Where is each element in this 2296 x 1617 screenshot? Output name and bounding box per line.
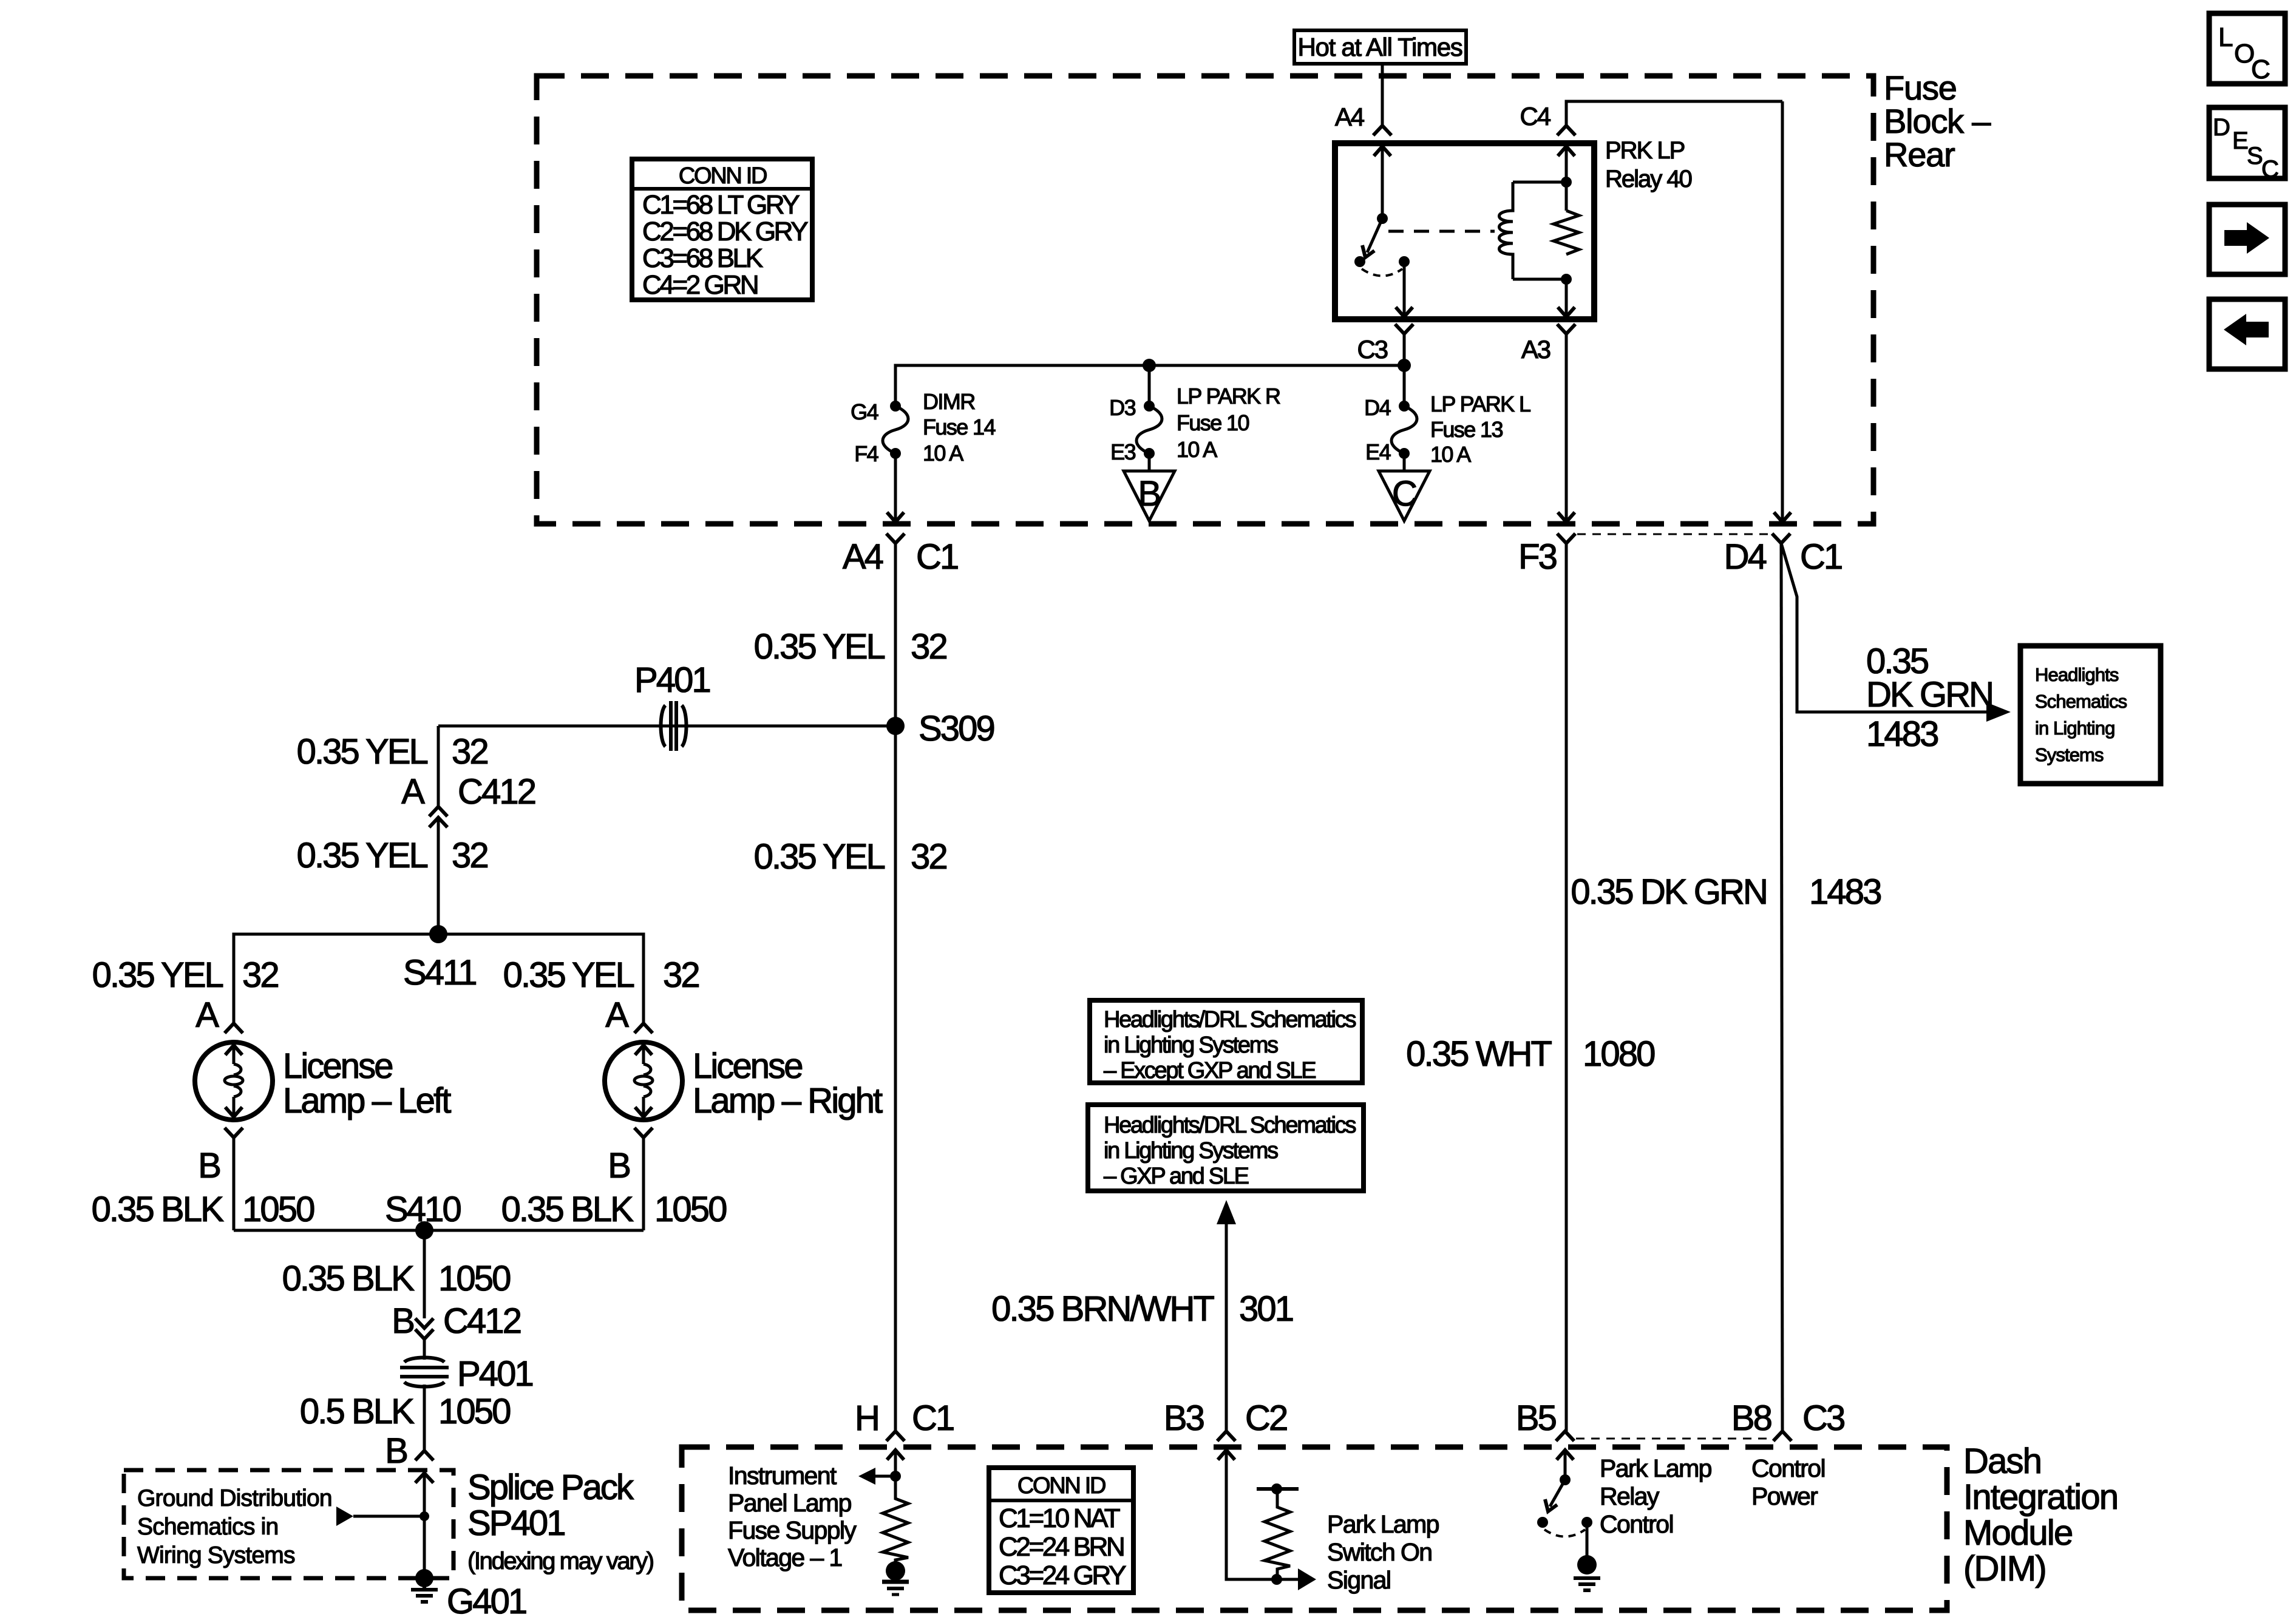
relay coil top wire <box>1513 181 1566 184</box>
svg-text:CONN ID: CONN ID <box>679 163 767 189</box>
svg-text:License: License <box>693 1046 802 1086</box>
pin label B5 <box>1516 1398 1556 1438</box>
box Headlights/DRL Schematics GXP <box>1088 1105 1364 1191</box>
park lamp switch resistor top tick <box>1257 1483 1299 1494</box>
pin label C4 (relay) <box>1520 102 1551 131</box>
label Instrument Panel Lamp Fuse Supply Voltage - 1 <box>728 1462 857 1571</box>
svg-text:0.35 YEL: 0.35 YEL <box>754 627 885 666</box>
svg-text:Fuse 14: Fuse 14 <box>923 415 995 439</box>
wire D4/C1 down to DIM pin B8 <box>1781 543 1782 1431</box>
arrow B5 into DIM <box>1557 1450 1574 1460</box>
svg-text:1050: 1050 <box>654 1190 726 1229</box>
svg-text:– GXP and SLE: – GXP and SLE <box>1104 1164 1249 1189</box>
license lamp right pin A fork <box>634 1023 653 1033</box>
svg-text:Switch On: Switch On <box>1327 1538 1432 1566</box>
lamp License Lamp - Left <box>195 1042 273 1120</box>
svg-text:CONN ID: CONN ID <box>1017 1473 1106 1499</box>
ground at park lamp relay control <box>1574 1555 1600 1590</box>
svg-text:LP PARK R: LP PARK R <box>1177 384 1280 408</box>
fuse LP PARK R labels <box>1109 384 1280 464</box>
relay coil <box>1500 182 1513 279</box>
svg-text:C1: C1 <box>912 1398 954 1438</box>
svg-text:Relay 40: Relay 40 <box>1605 166 1692 192</box>
branch arrow to ground distribution <box>336 1507 429 1526</box>
svg-text:Hot at All Times: Hot at All Times <box>1298 33 1462 61</box>
label License Lamp - Left <box>283 1046 451 1120</box>
svg-text:Voltage – 1: Voltage – 1 <box>728 1544 842 1571</box>
arrow into headlights schematics box <box>1986 702 2011 722</box>
fuse DIMR labels <box>851 389 995 466</box>
CONN ID table text (DIM) <box>999 1473 1126 1590</box>
wire label 0.35 BRN/WHT 301 <box>991 1289 1293 1329</box>
svg-text:Fuse: Fuse <box>1884 69 1957 107</box>
svg-text:(DIM): (DIM) <box>1963 1549 2046 1588</box>
svg-text:A4: A4 <box>843 537 883 577</box>
svg-text:C: C <box>2251 55 2270 84</box>
svg-text:D4: D4 <box>1364 395 1390 420</box>
relay switch dashed throw arc <box>1362 269 1402 276</box>
label Control Power <box>1751 1454 1825 1510</box>
relay dashed actuation link <box>1388 230 1495 233</box>
splice S411 <box>429 925 447 943</box>
svg-text:C1: C1 <box>916 537 958 577</box>
connector fork B5 at DIM <box>1556 1431 1574 1441</box>
svg-text:Lamp – Right: Lamp – Right <box>693 1081 883 1120</box>
wire label 0.35 BLK 1050 (right) <box>501 1190 727 1229</box>
label Fuse Block - Rear <box>1884 69 1991 174</box>
svg-text:SP401: SP401 <box>467 1503 565 1543</box>
relay U1 PRK LP Relay 40 box <box>1335 143 1594 319</box>
icon box arrow left <box>2209 299 2285 369</box>
resistor instrument panel <box>883 1476 908 1562</box>
svg-text:Module: Module <box>1963 1513 2072 1553</box>
relay switch output wire to C3 with down arrow <box>1403 262 1406 316</box>
svg-text:Relay: Relay <box>1600 1482 1660 1510</box>
svg-text:PRK LP: PRK LP <box>1605 137 1685 164</box>
svg-text:32: 32 <box>452 732 487 771</box>
wire label 0.35 YEL 32 (upper) <box>754 627 947 666</box>
svg-text:C1=68 LT GRY: C1=68 LT GRY <box>642 190 800 220</box>
svg-text:A: A <box>401 772 425 812</box>
svg-text:C: C <box>1392 474 1416 514</box>
wire label 0.35 YEL 32 (left upper) <box>297 732 488 771</box>
splice pack arrow into SP401 <box>415 1473 433 1483</box>
connector C412 pin B arrow <box>415 1318 433 1328</box>
svg-text:32: 32 <box>911 627 946 666</box>
wire lamp right B to S410 bus <box>642 1137 645 1230</box>
svg-text:S309: S309 <box>919 709 994 748</box>
label P401 (bottom) <box>457 1354 532 1394</box>
svg-text:LP PARK L: LP PARK L <box>1430 392 1530 416</box>
svg-text:10 A: 10 A <box>1430 442 1471 467</box>
relay coil bottom wire <box>1513 278 1566 281</box>
label Splice Pack SP401 <box>467 1468 653 1575</box>
svg-text:Wiring Systems: Wiring Systems <box>137 1542 295 1568</box>
svg-text:32: 32 <box>911 837 946 876</box>
dashed connector tie F3 to D4 <box>1577 534 1771 535</box>
connector C412 pin A fork <box>429 807 447 816</box>
connector fork B8/C3 at DIM <box>1773 1431 1792 1441</box>
pin labels B C412 <box>392 1301 520 1341</box>
wire corner down to C412 pin A <box>437 726 440 807</box>
label License Lamp - Right <box>693 1046 883 1120</box>
connector C412 pin A arrow <box>429 818 447 827</box>
svg-text:C4: C4 <box>1520 102 1551 131</box>
wire C412 B to P401 <box>423 1339 426 1360</box>
pin label C3 (relay) <box>1357 335 1388 364</box>
ground at instrument panel resistor <box>882 1561 909 1595</box>
pin labels D4 C1 at fuse block exit <box>1724 537 1842 577</box>
svg-text:B: B <box>385 1431 407 1471</box>
pin label B at SP401 <box>385 1431 407 1471</box>
ground distribution dashed box <box>124 1470 453 1578</box>
svg-text:Splice Pack: Splice Pack <box>467 1468 634 1507</box>
wire C412 down to S411 <box>437 818 440 934</box>
svg-text:in Lighting Systems: in Lighting Systems <box>1104 1138 1278 1164</box>
connector fork D4/C1 below fuse block <box>1772 534 1790 543</box>
svg-text:B: B <box>198 1146 220 1185</box>
svg-text:Park Lamp: Park Lamp <box>1327 1510 1439 1538</box>
relay switch common arm with up arrow <box>1381 147 1384 219</box>
label Park Lamp Switch On Signal <box>1327 1510 1439 1594</box>
wire contact to ground (B5 switch) <box>1586 1522 1589 1558</box>
wire label 0.5 BLK 1050 <box>300 1392 510 1431</box>
junction dot C3/bus <box>1398 359 1411 372</box>
wire A4/C1 down to S309 and on to DIM pin H <box>894 543 897 1431</box>
wire label 0.35 WHT 1080 <box>1406 1034 1654 1074</box>
pin labels H C1 <box>855 1398 954 1438</box>
CONN ID table (fuse block) <box>632 159 812 300</box>
svg-text:32: 32 <box>242 955 278 995</box>
svg-text:C2=24 BRN: C2=24 BRN <box>999 1532 1124 1562</box>
svg-text:Fuse Supply: Fuse Supply <box>728 1516 857 1544</box>
connector fork H/C1 at DIM <box>886 1431 905 1441</box>
pin label F3 <box>1518 537 1557 577</box>
CONN ID table (DIM) <box>989 1468 1133 1593</box>
wire LP PARK R fuse to triangle B <box>1148 453 1151 471</box>
svg-text:0.35 WHT: 0.35 WHT <box>1406 1034 1552 1074</box>
svg-text:S410: S410 <box>385 1190 460 1229</box>
svg-text:H: H <box>855 1398 878 1438</box>
wire DIMR fuse to A4 exit with down arrow <box>894 453 897 521</box>
icon box arrow right <box>2209 205 2285 274</box>
wire A3 down to F3 exit with down arrow <box>1565 334 1568 521</box>
svg-text:1050: 1050 <box>438 1259 510 1298</box>
branch labels 0.35 DK GRN 1483 <box>1866 642 1992 754</box>
svg-text:B: B <box>1138 474 1161 514</box>
wire lamp left B to S410 bus <box>233 1137 236 1230</box>
svg-text:10 A: 10 A <box>923 441 963 466</box>
svg-text:32: 32 <box>663 955 699 995</box>
off-page triangle C <box>1379 471 1430 521</box>
dashed connector tie B5 to B8 <box>1576 1438 1771 1440</box>
svg-text:B: B <box>392 1301 413 1341</box>
relay switch contact dot right <box>1399 256 1410 267</box>
svg-text:C3=68 BLK: C3=68 BLK <box>642 243 763 273</box>
wire B3/C2 park lamp switch signal riser <box>1225 1222 1228 1431</box>
splice S309 <box>886 717 905 735</box>
junction dot instrument panel feed <box>890 1471 901 1482</box>
wire label 0.35 YEL 32 (left lamp) <box>92 955 279 995</box>
lamp License Lamp - Right <box>605 1042 682 1120</box>
box Headlights Schematics in Lighting Systems <box>2020 646 2161 784</box>
wire label 0.35 YEL 32 (below S309) <box>754 837 947 876</box>
connector fork A4/C1 below fuse block <box>886 534 905 543</box>
off-page triangle B <box>1124 471 1175 521</box>
fuse LP PARK R Fuse 10 10 A <box>1136 401 1162 459</box>
relay switch contact dot left <box>1354 256 1365 267</box>
svg-text:DK GRN: DK GRN <box>1866 675 1992 714</box>
label PRK LP Relay 40 <box>1605 137 1692 192</box>
svg-text:Signal: Signal <box>1327 1566 1390 1594</box>
wire S410 down to C412 pin B <box>423 1230 426 1318</box>
connector fork B3/C2 at DIM <box>1217 1431 1235 1441</box>
svg-text:DIMR: DIMR <box>923 389 975 414</box>
svg-text:C: C <box>2261 156 2278 183</box>
svg-text:A3: A3 <box>1521 335 1550 364</box>
park lamp relay control switch pivot dot <box>1560 1474 1571 1485</box>
wire label 0.35 YEL 32 (right lamp) <box>503 955 699 995</box>
box Headlights/DRL Schematics except GXP <box>1090 1000 1362 1083</box>
wire resistor bottom to A3 pin with down arrow <box>1565 279 1568 316</box>
svg-text:C2: C2 <box>1245 1398 1287 1438</box>
svg-text:Schematics in: Schematics in <box>137 1514 278 1540</box>
Hot at All Times box <box>1294 30 1466 64</box>
svg-text:E: E <box>2232 127 2247 154</box>
pin label A3 (relay) <box>1521 335 1550 364</box>
park lamp relay control blade with arrowhead <box>1550 1480 1565 1507</box>
svg-text:1050: 1050 <box>242 1190 314 1229</box>
wire C1 riser down to D4 exit with down arrow <box>1781 101 1784 521</box>
fuse block rear dashed box <box>537 76 1873 524</box>
svg-text:Fuse 10: Fuse 10 <box>1177 410 1249 435</box>
svg-text:0.35 BLK: 0.35 BLK <box>92 1190 225 1229</box>
connector fork A3 below relay <box>1557 324 1575 334</box>
wire P401 down to SP401 <box>423 1385 426 1451</box>
svg-text:Integration: Integration <box>1963 1477 2118 1517</box>
fuse LP PARK L Fuse 13 10 A <box>1391 401 1417 459</box>
svg-text:G401: G401 <box>447 1582 526 1617</box>
svg-text:1080: 1080 <box>1583 1034 1654 1074</box>
svg-text:Systems: Systems <box>2035 744 2104 765</box>
pin labels B8 C3 <box>1731 1398 1844 1438</box>
svg-text:E4: E4 <box>1365 439 1390 464</box>
horizontal wire S309 to P401 to corner <box>438 725 895 728</box>
svg-text:Schematics: Schematics <box>2035 691 2127 712</box>
wire label 0.35 DK GRN 1483 <box>1571 872 1881 912</box>
svg-text:Block –: Block – <box>1884 102 1991 140</box>
svg-text:A: A <box>605 995 629 1035</box>
connector C412 pin B fork <box>415 1329 433 1339</box>
svg-text:P401: P401 <box>457 1354 532 1394</box>
svg-text:Headlights/DRL Schematics: Headlights/DRL Schematics <box>1104 1007 1356 1032</box>
dashed throw arc (B5 switch) <box>1544 1530 1585 1537</box>
svg-text:License: License <box>283 1046 392 1086</box>
relay suppression resistor <box>1554 211 1579 254</box>
svg-text:D4: D4 <box>1724 537 1767 577</box>
wire label 0.35 BLK 1050 (below S410) <box>282 1259 511 1298</box>
fuse supply bus <box>895 365 1404 406</box>
svg-text:L: L <box>2218 22 2233 52</box>
svg-text:F3: F3 <box>1518 537 1557 577</box>
relay switch movable blade with arrowhead <box>1367 219 1382 253</box>
svg-text:B5: B5 <box>1516 1398 1556 1438</box>
contact dot right (B5 switch) <box>1581 1517 1592 1528</box>
svg-text:C412: C412 <box>458 772 535 812</box>
svg-text:Control: Control <box>1600 1510 1673 1538</box>
svg-text:C4=2 GRN: C4=2 GRN <box>642 270 758 300</box>
junction dot coil/resistor top <box>1561 177 1572 188</box>
svg-text:0.35 DK GRN: 0.35 DK GRN <box>1571 872 1767 912</box>
svg-text:A: A <box>195 995 219 1035</box>
contact dot left (B5 switch) <box>1537 1517 1548 1528</box>
wire F3 down to DIM pin B5 <box>1565 543 1568 1431</box>
pin labels B3 C2 <box>1164 1398 1287 1438</box>
wire LP PARK L fuse to triangle C <box>1403 453 1406 471</box>
license lamp left pin A fork <box>225 1023 243 1033</box>
svg-text:0.35 YEL: 0.35 YEL <box>754 837 885 876</box>
wire bus to D3 fuse <box>1148 365 1151 406</box>
pin labels A C412 <box>401 772 535 812</box>
svg-text:Park Lamp: Park Lamp <box>1600 1454 1712 1482</box>
svg-text:– Except GXP and SLE: – Except GXP and SLE <box>1104 1058 1316 1083</box>
fuse DIMR Fuse 14 10 A <box>883 401 908 459</box>
svg-text:in Lighting: in Lighting <box>2035 717 2114 739</box>
svg-text:0.35 BRN/WHT: 0.35 BRN/WHT <box>991 1289 1214 1329</box>
connector fork F3 below fuse block <box>1557 534 1575 543</box>
wire C4 pin into relay with up arrow <box>1565 147 1568 211</box>
svg-text:B: B <box>608 1146 630 1185</box>
connector fork C3 below relay <box>1395 324 1413 334</box>
fuse LP PARK L labels <box>1364 392 1530 467</box>
svg-text:C3: C3 <box>1802 1398 1844 1438</box>
junction dot coil/resistor bottom <box>1561 274 1572 285</box>
arrow park lamp switch on signal <box>1298 1568 1316 1590</box>
inline connector P401 (bottom) <box>400 1358 449 1387</box>
svg-text:Headlights/DRL Schematics: Headlights/DRL Schematics <box>1104 1113 1356 1138</box>
svg-text:0.5 BLK: 0.5 BLK <box>300 1392 415 1431</box>
wire bus to D4 fuse <box>1403 365 1406 406</box>
arrow H into DIM <box>887 1450 904 1460</box>
wire label 0.35 BLK 1050 (left) <box>92 1190 314 1229</box>
junction dot park lamp switch output <box>1271 1574 1282 1585</box>
DIM dashed box <box>682 1447 1947 1610</box>
svg-text:0.35 BLK: 0.35 BLK <box>282 1259 415 1298</box>
svg-text:1483: 1483 <box>1866 714 1938 754</box>
S411 bus to both license lamps <box>234 934 644 1023</box>
svg-text:F4: F4 <box>854 441 878 466</box>
svg-text:C2=68 DK GRY: C2=68 DK GRY <box>642 217 808 246</box>
pin label A4 (relay) <box>1335 103 1365 131</box>
svg-text:Headlights: Headlights <box>2035 664 2119 685</box>
svg-text:B3: B3 <box>1164 1398 1204 1438</box>
svg-text:E3: E3 <box>1110 439 1135 464</box>
svg-text:Lamp – Left: Lamp – Left <box>283 1081 451 1120</box>
license lamp right pin B fork <box>634 1128 653 1137</box>
relay switch pivot dot <box>1377 213 1388 224</box>
inline connector P401 (top) <box>661 701 687 751</box>
svg-text:10 A: 10 A <box>1177 437 1217 462</box>
branch wire to headlights schematics <box>1781 543 1986 712</box>
svg-text:Fuse 13: Fuse 13 <box>1430 417 1503 442</box>
wire C4 riser to top corner <box>1566 101 1782 126</box>
arrow into GXP box <box>1217 1200 1236 1224</box>
svg-text:0.35 YEL: 0.35 YEL <box>503 955 634 995</box>
label P401 (top) <box>634 660 710 700</box>
wire C3 to bus junction <box>1403 334 1406 365</box>
svg-text:1050: 1050 <box>438 1392 510 1431</box>
connector fork B at SP401 <box>415 1451 433 1460</box>
svg-text:Rear: Rear <box>1884 135 1955 174</box>
pin labels A4 C1 at fuse block exit <box>843 537 958 577</box>
branch arrow instrument panel lamp supply <box>858 1468 895 1485</box>
label Park Lamp Relay Control <box>1600 1454 1712 1538</box>
svg-text:Instrument: Instrument <box>728 1462 837 1490</box>
label Dash Integration Module (DIM) <box>1963 1442 2118 1588</box>
svg-text:in Lighting Systems: in Lighting Systems <box>1104 1032 1278 1058</box>
splice S410 <box>415 1221 433 1239</box>
CONN ID table text <box>642 163 808 300</box>
svg-text:Power: Power <box>1751 1482 1818 1510</box>
resistor park lamp switch <box>1265 1491 1290 1579</box>
svg-text:C1=10 NAT: C1=10 NAT <box>999 1503 1120 1533</box>
label Ground Distribution Schematics in Wiring Systems <box>137 1485 332 1568</box>
svg-text:Panel Lamp: Panel Lamp <box>728 1489 852 1517</box>
svg-text:D3: D3 <box>1109 395 1135 420</box>
svg-text:P401: P401 <box>634 660 710 700</box>
svg-text:0.35 BLK: 0.35 BLK <box>501 1190 634 1229</box>
icon box DESC <box>2209 107 2285 178</box>
svg-text:C3: C3 <box>1357 335 1388 364</box>
svg-text:(Indexing may vary): (Indexing may vary) <box>467 1548 653 1575</box>
svg-text:B8: B8 <box>1731 1398 1771 1438</box>
svg-text:0.35 YEL: 0.35 YEL <box>297 836 428 875</box>
wire from Hot at All Times to relay pin A4 <box>1381 64 1384 126</box>
connector fork A4 at relay <box>1373 126 1391 135</box>
svg-text:1483: 1483 <box>1809 872 1881 912</box>
svg-text:D: D <box>2213 114 2229 141</box>
svg-text:C1: C1 <box>1800 537 1842 577</box>
svg-text:Dash: Dash <box>1963 1442 2041 1481</box>
svg-text:A4: A4 <box>1335 103 1365 131</box>
svg-text:32: 32 <box>452 836 487 875</box>
svg-text:C412: C412 <box>443 1301 521 1341</box>
svg-text:G4: G4 <box>851 399 878 424</box>
wire B3 to park lamp switch resistor <box>1226 1450 1298 1579</box>
junction dot bus at D3 fuse <box>1143 359 1156 372</box>
icon box LOC <box>2209 13 2285 84</box>
svg-text:S: S <box>2247 143 2262 169</box>
license lamp left pin B fork <box>225 1128 243 1137</box>
svg-text:C3=24 GRY: C3=24 GRY <box>999 1561 1126 1590</box>
svg-text:S411: S411 <box>403 953 476 992</box>
label G401 <box>447 1582 526 1617</box>
svg-text:Ground Distribution: Ground Distribution <box>137 1485 332 1511</box>
wire label 0.35 YEL 32 (left lower) <box>297 836 488 875</box>
svg-text:0.35 YEL: 0.35 YEL <box>92 955 223 995</box>
ground G401 <box>411 1569 438 1602</box>
S410 ground bus <box>234 1229 644 1232</box>
connector fork C4 at relay <box>1557 126 1575 135</box>
svg-text:0.35 YEL: 0.35 YEL <box>297 732 428 771</box>
svg-text:Control: Control <box>1751 1454 1825 1482</box>
svg-text:301: 301 <box>1239 1289 1293 1329</box>
arrow B3 into DIM <box>1218 1450 1235 1460</box>
